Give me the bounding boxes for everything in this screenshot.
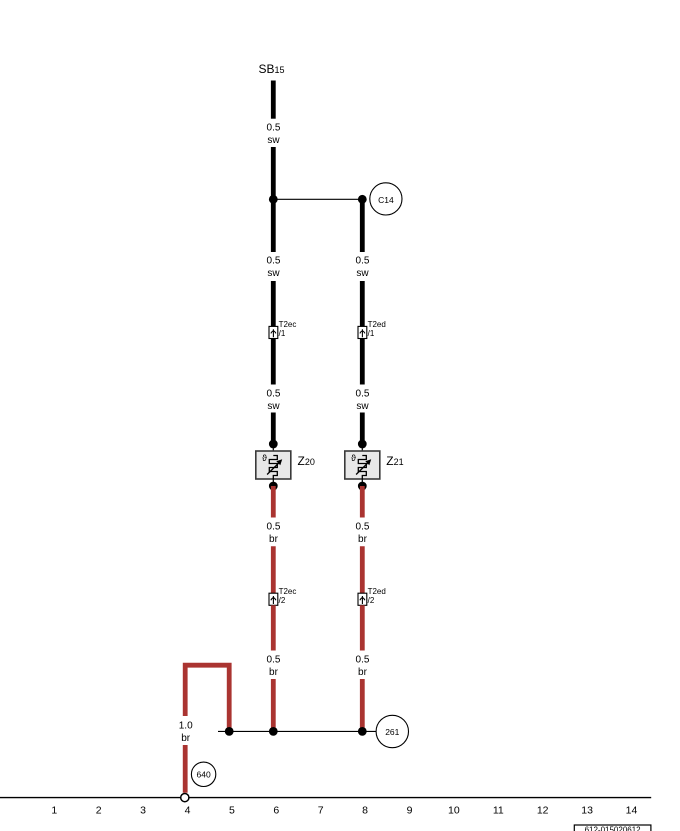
svg-text:0.5: 0.5 [267, 522, 281, 533]
wire: thin link to C14 branch [273, 198, 362, 200]
connector T2ec pin 1 [269, 320, 296, 338]
svg-text:br: br [358, 534, 368, 545]
svg-text:T2ed: T2ed [368, 320, 386, 329]
svg-text:/2: /2 [368, 596, 375, 605]
svg-text:5: 5 [229, 805, 235, 817]
wire A1 0.5 sw from SB15 [271, 81, 276, 119]
wire B6 0.5 br [360, 546, 365, 593]
wire B4 0.5 sw [360, 413, 365, 445]
label 0.5 br (B gap4) [356, 522, 370, 546]
connector T2ed pin 1 [358, 320, 386, 338]
label 0.5 sw (A gap3) [267, 389, 281, 413]
wire B8 0.5 br [360, 679, 365, 731]
svg-text:10: 10 [448, 805, 460, 817]
svg-text:1.0: 1.0 [179, 721, 193, 732]
svg-text:640: 640 [197, 769, 211, 779]
label 0.5 sw (A gap1) [267, 123, 281, 147]
svg-text:SB15: SB15 [259, 62, 285, 76]
svg-text:br: br [358, 667, 368, 678]
svg-text:0.5: 0.5 [356, 389, 370, 400]
wire A9 0.5 br [271, 605, 276, 650]
label 1.0 br [179, 721, 193, 745]
heated washer jet Z21 [345, 444, 380, 486]
svg-text:9: 9 [407, 805, 413, 817]
svg-text:4: 4 [185, 805, 191, 817]
svg-text:br: br [269, 534, 279, 545]
svg-text:0.5: 0.5 [267, 389, 281, 400]
label 0.5 sw (B gap2) [356, 256, 370, 280]
wire: thin link to 261 [218, 730, 377, 732]
svg-text:/2: /2 [279, 596, 286, 605]
svg-text:sw: sw [267, 268, 280, 279]
wire B7 0.5 br [360, 605, 365, 650]
svg-text:261: 261 [385, 727, 399, 737]
svg-text:8: 8 [362, 805, 368, 817]
connector T2ed pin 2 [358, 587, 386, 605]
wire B1 0.5 sw [360, 199, 365, 252]
svg-text:6: 6 [273, 805, 279, 817]
wire 1.0 br ground hook [185, 665, 229, 731]
svg-text:T2ec: T2ec [279, 587, 297, 596]
svg-text:0.5: 0.5 [267, 655, 281, 666]
connector T2ec pin 2 [269, 587, 296, 605]
junction dot B-bottom [358, 727, 367, 736]
svg-text:3: 3 [140, 805, 146, 817]
wire A6 0.5 sw [271, 413, 276, 445]
svg-text:sw: sw [356, 268, 369, 279]
junction dot above Z20 [269, 440, 278, 449]
svg-text:ϑ: ϑ [351, 453, 356, 463]
wire A2 0.5 sw [271, 147, 276, 199]
junction dot A-bottom [269, 727, 278, 736]
svg-text:612-015020612: 612-015020612 [585, 826, 642, 831]
wire A3 0.5 sw [271, 199, 276, 252]
svg-text:ϑ: ϑ [262, 453, 267, 463]
wire A7 0.5 br [271, 486, 276, 518]
heated washer jet Z20 [256, 444, 291, 486]
ground terminal [181, 794, 189, 802]
svg-text:0.5: 0.5 [267, 123, 281, 134]
svg-text:1: 1 [51, 805, 57, 817]
wire A5 0.5 sw [271, 339, 276, 385]
wire A8 0.5 br [271, 546, 276, 593]
svg-text:sw: sw [267, 135, 280, 146]
svg-text:T2ec: T2ec [279, 320, 297, 329]
junction dot below Z20 [269, 482, 278, 491]
svg-text:14: 14 [626, 805, 638, 817]
junction dot below Z21 [358, 482, 367, 491]
svg-text:0.5: 0.5 [356, 522, 370, 533]
label 0.5 br (B gap5) [356, 655, 370, 679]
svg-text:br: br [269, 667, 279, 678]
label 0.5 sw (A gap2) [267, 256, 281, 280]
svg-text:/1: /1 [279, 329, 286, 338]
svg-text:2: 2 [96, 805, 102, 817]
label 0.5 br (A gap5) [267, 655, 281, 679]
label 0.5 sw (B gap3) [356, 389, 370, 413]
svg-text:T2ed: T2ed [368, 587, 386, 596]
drawing number box [574, 825, 651, 831]
svg-text:11: 11 [493, 805, 504, 817]
junction dot hook [225, 727, 234, 736]
svg-text:C14: C14 [378, 195, 394, 205]
label 0.5 br (A gap4) [267, 522, 281, 546]
svg-text:Z21: Z21 [386, 454, 403, 468]
wire A10 0.5 br [271, 679, 276, 731]
junction dot above Z21 [358, 440, 367, 449]
svg-text:0.5: 0.5 [356, 256, 370, 267]
junction dot B-top [358, 195, 367, 204]
ground rail [0, 797, 651, 799]
fuse label SB15 [259, 62, 285, 76]
svg-text:br: br [181, 733, 191, 744]
wire B3 0.5 sw [360, 339, 365, 385]
connector circle 261 [376, 715, 408, 747]
wire A4 0.5 sw [271, 281, 276, 327]
svg-text:0.5: 0.5 [267, 256, 281, 267]
svg-text:12: 12 [537, 805, 549, 817]
junction dot A-top [269, 195, 278, 204]
ground reference circle 640 [191, 762, 215, 786]
svg-text:Z20: Z20 [298, 454, 315, 468]
connector circle C14 [370, 183, 402, 215]
wire B5 0.5 br [360, 486, 365, 518]
wire 1.0 br to ground [183, 745, 188, 793]
wire B2 0.5 sw [360, 281, 365, 327]
svg-text:sw: sw [267, 401, 280, 412]
svg-text:/1: /1 [368, 329, 375, 338]
svg-text:7: 7 [318, 805, 324, 817]
grid numbers 1-14 [51, 805, 637, 817]
svg-text:13: 13 [581, 805, 593, 817]
svg-text:0.5: 0.5 [356, 655, 370, 666]
svg-text:sw: sw [356, 401, 369, 412]
